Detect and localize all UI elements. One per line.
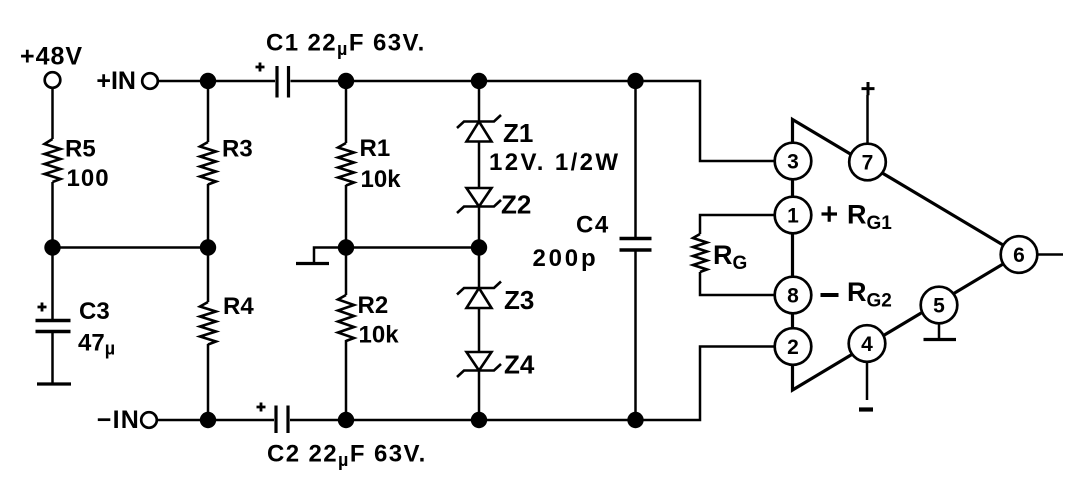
svg-text:8: 8 <box>787 285 799 308</box>
wire Z2 to mid node <box>478 207 481 248</box>
wire R4 to bottom rail <box>207 344 210 420</box>
capacitor C4 <box>533 212 652 273</box>
svg-text:Z1: Z1 <box>503 118 533 148</box>
terminal +IN <box>96 67 157 95</box>
resistor RG branch wires <box>700 215 793 234</box>
junction dot bottom rail at R4 <box>200 412 216 428</box>
junction dot top rail at R1 <box>338 73 354 89</box>
svg-text:5: 5 <box>933 295 945 318</box>
resistor R5 <box>45 136 110 193</box>
junction dot bottom rail at zeners <box>471 412 487 428</box>
wire C3 bottom lead <box>51 333 54 383</box>
junction dot mid R3/R4 <box>200 239 216 255</box>
wire R2 to bottom rail <box>345 340 348 420</box>
junction dot bottom rail at C4 <box>627 412 643 428</box>
svg-text:6: 6 <box>1013 244 1025 267</box>
capacitor C3 <box>36 298 116 359</box>
svg-text:R1: R1 <box>360 135 391 162</box>
wire C4 bottom lead <box>634 252 637 421</box>
junction dot mid C3 <box>44 239 60 255</box>
wire mid node to Z3 <box>478 248 481 289</box>
svg-text:1: 1 <box>787 205 799 228</box>
svg-text:Z3: Z3 <box>504 285 534 315</box>
junction dot bottom rail at R2 <box>338 412 354 428</box>
terminal +48V <box>20 43 83 88</box>
wire Z1 to Z2 <box>478 142 481 189</box>
capacitor C2 <box>257 403 427 471</box>
svg-text:C3: C3 <box>79 298 110 325</box>
capacitor C1 <box>256 30 426 98</box>
svg-text:200p: 200p <box>533 245 599 272</box>
supply - mark <box>859 407 873 411</box>
op-amp U1 triangle <box>793 120 1020 391</box>
svg-text:C4: C4 <box>576 212 610 239</box>
resistor R1 <box>338 135 401 193</box>
zener Z2 <box>457 188 531 220</box>
wire C3 top lead <box>51 248 54 320</box>
wire Z3 to Z4 <box>478 308 481 352</box>
ground at R1/R2 node <box>296 248 346 264</box>
wire R2 top lead <box>345 248 348 296</box>
svg-text:7: 7 <box>862 152 874 175</box>
wire R3 top lead <box>207 81 210 142</box>
junction dot mid R1/R2 <box>338 239 354 255</box>
pin 5 <box>921 287 958 324</box>
svg-text:10k: 10k <box>361 166 402 193</box>
zener Z3 <box>457 282 534 316</box>
junction dot top rail at zeners <box>471 73 487 89</box>
wire pin6 output <box>1037 253 1063 256</box>
svg-text:12V. 1/2W: 12V. 1/2W <box>489 149 620 176</box>
svg-text:R2: R2 <box>358 292 389 319</box>
supply + mark <box>862 82 875 95</box>
wire R1 to mid node <box>345 185 348 248</box>
wire bottom rail (C2 to amp corner) <box>290 347 778 421</box>
pin 8 <box>775 277 812 314</box>
wire pin7 supply <box>866 95 869 144</box>
terminal -IN <box>97 406 157 434</box>
wire top rail (C1 to amp corner) <box>291 81 779 161</box>
wire bottom rail left (-IN to C2) <box>157 419 274 422</box>
wire R1 top lead <box>345 81 348 143</box>
zener Z1 <box>457 115 620 176</box>
svg-text:R5: R5 <box>65 136 96 163</box>
svg-text:+IN: +IN <box>96 67 136 95</box>
svg-text:Z2: Z2 <box>501 190 531 220</box>
svg-text:R3: R3 <box>222 136 253 163</box>
svg-text:−IN: −IN <box>97 406 140 434</box>
svg-text:R4: R4 <box>223 293 254 320</box>
wire top rail left (+IN to C1) <box>158 80 275 83</box>
svg-text:4: 4 <box>861 333 873 356</box>
resistor R4 <box>200 293 254 345</box>
pin 2 <box>775 328 812 365</box>
ground bar below C3 <box>37 382 71 385</box>
wire +48V to R5 <box>51 88 54 139</box>
wire R3 to mid node <box>207 184 210 248</box>
junction dot top rail at C4 <box>627 73 643 89</box>
zener Z4 <box>457 350 535 380</box>
junction dot top rail at R3 <box>200 73 216 89</box>
wire mid-left rail <box>53 246 209 249</box>
wire RG to pin 8 <box>700 272 793 295</box>
wire Z4 to bottom rail <box>478 371 481 421</box>
pin 4 <box>849 325 886 362</box>
resistor RG <box>693 234 747 274</box>
wire pin4 supply <box>866 362 869 400</box>
svg-text:2: 2 <box>787 336 799 359</box>
svg-text:3: 3 <box>787 151 799 174</box>
wire pin5 ground lead <box>938 323 941 338</box>
svg-text:100: 100 <box>67 165 110 192</box>
svg-text:Z4: Z4 <box>504 350 535 380</box>
pin 7 <box>849 144 886 181</box>
pin 1 <box>775 197 812 234</box>
wire R5 to node <box>51 182 54 248</box>
junction dot mid zeners <box>471 239 487 255</box>
wire C4 top lead <box>634 81 637 237</box>
label +RG1 at pin 1 <box>822 200 893 235</box>
resistor R2 <box>338 292 399 349</box>
wire R4 top lead <box>207 248 210 303</box>
resistor R3 <box>200 136 253 185</box>
svg-text:10k: 10k <box>359 322 400 349</box>
svg-text:+48V: +48V <box>20 43 83 71</box>
pin 3 <box>775 143 812 180</box>
ground bar below pin 5 <box>924 338 957 341</box>
label -RG2 at pin 8 <box>821 277 892 312</box>
wire mid rail R1 node to zener node <box>346 246 479 249</box>
wire zener chain top lead <box>478 81 481 122</box>
pin 6 <box>1001 236 1038 273</box>
